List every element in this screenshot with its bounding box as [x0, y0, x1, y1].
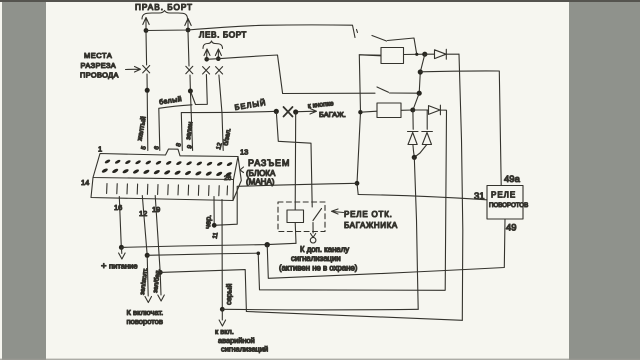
wire diode1 long vertical: [459, 54, 463, 320]
bottom frame line: [0, 359, 640, 360]
wire lamp L1 left to ground trunk: [359, 55, 381, 56]
connector right small face: [233, 157, 241, 201]
svg-text:49а: 49а: [504, 174, 521, 185]
svg-text:1: 1: [98, 145, 102, 154]
svg-text:чер.: чер.: [203, 214, 213, 229]
pen tick near switch S1: [357, 30, 358, 33]
wire lamp L2 right to diode D2: [401, 109, 413, 111]
arrow gray down: [219, 309, 226, 326]
node dot y245: [265, 242, 270, 247]
diode D1: [425, 49, 459, 59]
lamp L1: [381, 48, 404, 64]
svg-text:(МАНА): (МАНА): [246, 178, 275, 187]
wire relay switch output: [311, 223, 316, 238]
wire right-board2 down to pin9: [188, 32, 193, 151]
relay trunk dashed box: [278, 202, 325, 232]
wire coil bottom: [294, 223, 297, 244]
wire yellow: right-board1 down to pin5: [146, 32, 148, 151]
cut mark X on wire 2: [186, 66, 193, 73]
node dot pin19: [158, 270, 163, 275]
wire left-board horizontal going right then down to switch S2: [207, 55, 375, 94]
wire cher branch to trunk node: [214, 183, 357, 225]
wire right-board 1 top arrow: [143, 18, 149, 31]
wire lamp L2 left: [361, 111, 378, 112]
svg-text:26: 26: [224, 175, 232, 182]
node dot diodes bottom: [412, 155, 417, 160]
wire white label branch to pin6: [159, 105, 192, 151]
big cut X on white wire: [284, 107, 293, 117]
node dot white-right of cut: [293, 109, 298, 114]
wire pin19 down: [155, 196, 161, 296]
svg-text:ПОВОРОТОВ: ПОВОРОТОВ: [489, 202, 528, 209]
svg-text:31: 31: [474, 191, 485, 202]
svg-text:сигнализации: сигнализации: [291, 254, 341, 263]
top frame line: [0, 0, 640, 2]
svg-text:ПРОВОДА: ПРОВОДА: [80, 71, 119, 80]
node dot pin12: [145, 253, 150, 258]
node dot ground trunk: [355, 181, 360, 186]
wire top horizontal to lamps: [146, 25, 355, 38]
wire trunk to relay pin31: [358, 195, 487, 200]
svg-text:к вкл.: к вкл.: [215, 327, 234, 336]
pin holes row 1: [104, 159, 233, 167]
node dot pin16: [119, 245, 124, 250]
cut mark X on wire 3: [203, 67, 210, 74]
twin diode D4 (right, up): [414, 111, 432, 158]
svg-text:РЕЛЕ ОТК.: РЕЛЕ ОТК.: [344, 210, 393, 219]
node dot cher: [212, 223, 217, 228]
svg-text:13: 13: [240, 148, 248, 157]
node dot lamp2: [410, 108, 415, 113]
node dot B: [417, 91, 422, 96]
svg-text:РАЗЪЕМ: РАЗЪЕМ: [248, 158, 290, 168]
corner blob: [257, 252, 261, 256]
svg-text:49: 49: [506, 223, 517, 234]
svg-text:РЕЛЕ: РЕЛЕ: [491, 191, 516, 200]
node dot right-board 1: [144, 28, 149, 33]
node dot gray: [220, 307, 225, 312]
svg-text:питание: питание: [109, 262, 138, 271]
lamp L2: [377, 103, 401, 118]
node dot left-board 1: [204, 57, 209, 62]
arrow pin19 down: [158, 295, 165, 301]
wire pin12 down: [142, 196, 148, 297]
svg-text:МЕСТА: МЕСТА: [84, 51, 112, 60]
wire diodes node down to gray line: [414, 157, 418, 309]
wire big WHITE horizontal to trunk button: [181, 111, 276, 150]
arrow to relay label: [332, 209, 344, 214]
wire lamps-left trunk vertical: [357, 55, 381, 195]
diode D2: [413, 105, 447, 115]
svg-text:К включат.: К включат.: [127, 308, 164, 317]
svg-text:14: 14: [81, 178, 89, 187]
junction small dot switch1/lamp1: [415, 53, 418, 56]
left gray bar: [2, 0, 46, 360]
cut mark X on wire 1: [143, 66, 150, 73]
wire right-board 2 top arrow: [185, 19, 191, 31]
wire gray line y309: [222, 308, 418, 311]
connector body front face: [91, 178, 234, 201]
arrow pin12 down: [145, 297, 152, 303]
pin holes row 2: [101, 168, 232, 178]
wire pin16 down: [119, 197, 121, 248]
wire y245 line to coil bottom: [121, 243, 296, 247]
svg-text:+: +: [101, 261, 107, 272]
arrow to trunk button: [298, 109, 317, 115]
wire y254 to diode D2 return: [147, 111, 446, 291]
svg-text:РАЗРЕЗА: РАЗРЕЗА: [81, 61, 117, 70]
front face slots: [107, 184, 228, 196]
right gray bar: [569, 0, 640, 360]
wire lineB y312-320 to diode1 vertical: [246, 312, 462, 321]
wire y271 to diode1 return: [160, 270, 246, 312]
wire switch S2 to node B: [390, 92, 419, 94]
node dot at y71: [418, 69, 423, 74]
svg-text:сигнализаций: сигнализаций: [221, 345, 268, 354]
svg-text:БАГАЖНИКА: БАГАЖНИКА: [344, 221, 398, 230]
connector body top face: [93, 149, 238, 180]
brace under ЛЕВ. БОРТ: [203, 41, 223, 49]
splice dot lamp2 left: [358, 110, 362, 114]
relay povorotov box: [487, 186, 523, 220]
svg-text:поворотов: поворотов: [127, 317, 163, 326]
svg-text:ЛЕВ. БОРТ: ЛЕВ. БОРТ: [199, 31, 247, 40]
svg-text:16: 16: [114, 203, 122, 212]
node dot A: [422, 52, 427, 57]
wire relay pin49 down and to +12 node: [267, 219, 505, 278]
wire switch S1 to node: [388, 38, 417, 53]
wire cher pin11 down: [213, 197, 215, 226]
wire left-board 2 top arrow: [215, 49, 221, 59]
svg-text:К доп. каналу: К доп. каналу: [300, 245, 349, 254]
svg-text:(активен не в охране): (активен не в охране): [279, 264, 358, 273]
wire coil from white-right node down: [294, 112, 297, 210]
node dot right-board 2: [186, 28, 191, 33]
wire y71 to relay 49a: [420, 71, 501, 185]
wire feed +12 arrow: [119, 247, 126, 259]
twin diode D3 (left, up): [408, 111, 419, 157]
wire left-board1 down and left to white node: [191, 75, 208, 105]
node dot left-board 2: [216, 56, 221, 61]
brace under ПРАВ. БОРТ: [142, 11, 188, 20]
output terminal circle: [310, 237, 316, 243]
svg-text:БАГАЖ.: БАГАЖ.: [319, 110, 346, 119]
node dot white-left of cut: [274, 109, 279, 114]
cut mark X on wire 4: [216, 67, 223, 74]
relay switch blade: [313, 209, 322, 221]
wire node B to lamp2 node: [413, 93, 419, 110]
relay coil K1: [287, 210, 304, 223]
arrow to cut points: [126, 67, 141, 73]
switch S1 blade: [372, 36, 387, 42]
wire from white node down to trunk relay switch: [276, 111, 312, 207]
small pointer to connector: [240, 167, 244, 173]
wire left-board 1 top arrow: [204, 49, 210, 59]
splice dot node white: [188, 89, 193, 94]
wire node A down to node B: [419, 54, 425, 93]
splice dot on yellow wire: [145, 88, 150, 93]
wire gray pin down: [221, 200, 223, 310]
switch S2 blade: [377, 87, 389, 92]
wire left-board2 down to pin12: [219, 75, 223, 151]
svg-text:серый: серый: [224, 283, 234, 305]
wire lamp L1 right to node: [404, 53, 425, 55]
